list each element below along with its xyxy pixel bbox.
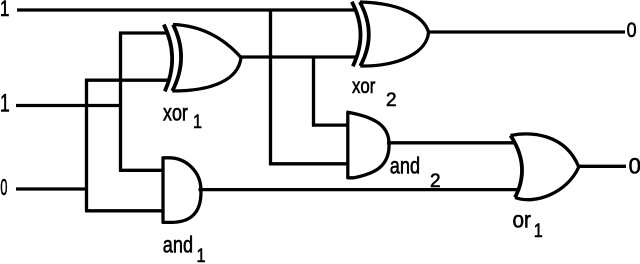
svg-text:and: and xyxy=(390,154,420,180)
and gate and1 xyxy=(163,158,201,223)
wire vertical xor1-to-and2 xyxy=(312,56,315,127)
wire Cin input xyxy=(16,187,88,190)
wire xor2 output xyxy=(427,30,625,33)
wire and1 bottom input xyxy=(85,209,164,212)
svg-text:and: and xyxy=(163,233,193,259)
svg-text:0: 0 xyxy=(0,174,7,200)
wire xor1 top input xyxy=(119,31,168,34)
wire vertical A-to-and2 xyxy=(269,9,272,166)
or gate or1 xyxy=(511,134,579,200)
wire xor1 bottom input xyxy=(85,79,168,82)
svg-text:1: 1 xyxy=(193,111,202,133)
xor gate xor1 xyxy=(164,25,241,92)
wire vertical branch B xyxy=(119,33,122,171)
svg-text:1: 1 xyxy=(534,220,543,242)
wire and2 top input xyxy=(312,123,348,126)
wire or1 output xyxy=(578,165,626,168)
wire and2 output xyxy=(387,141,516,144)
svg-text:xor: xor xyxy=(163,100,188,126)
wire and1 output xyxy=(199,188,518,191)
svg-text:2: 2 xyxy=(430,171,441,192)
svg-text:0: 0 xyxy=(627,19,637,43)
and gate and2 xyxy=(348,112,389,178)
wire B input xyxy=(16,104,122,107)
svg-text:1: 1 xyxy=(197,245,206,264)
svg-text:1: 1 xyxy=(0,88,10,117)
wire A input xyxy=(17,8,355,11)
wire xor1 output xyxy=(240,55,357,58)
svg-text:1: 1 xyxy=(0,0,9,21)
svg-text:0: 0 xyxy=(629,153,640,178)
wire vertical branch Cin xyxy=(85,79,88,211)
svg-text:2: 2 xyxy=(386,90,397,111)
xor gate xor2 xyxy=(352,2,429,67)
wire and2 bottom input xyxy=(269,162,348,165)
wire and1 top input xyxy=(119,169,164,172)
svg-text:or: or xyxy=(513,206,531,232)
svg-text:xor: xor xyxy=(352,76,376,99)
